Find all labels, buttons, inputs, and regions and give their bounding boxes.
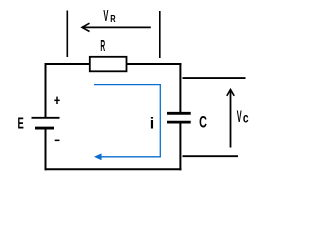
- svg-text:E: E: [18, 116, 24, 133]
- svg-text:C: C: [199, 114, 207, 132]
- svg-text:c: c: [243, 109, 249, 125]
- svg-text:V: V: [237, 108, 242, 126]
- svg-text:R: R: [110, 13, 116, 25]
- svg-text:V: V: [103, 8, 108, 25]
- svg-text:R: R: [100, 38, 105, 55]
- svg-text:i: i: [150, 116, 154, 133]
